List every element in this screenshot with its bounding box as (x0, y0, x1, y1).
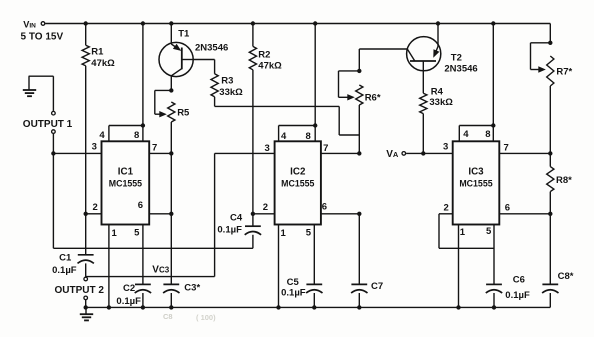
wire top supply rail (45, 23, 550, 25)
wire T2 base to R6 top (359, 48, 407, 50)
svg-text:2: 2 (263, 202, 268, 213)
wire R3 to R6 wiper link (215, 106, 360, 135)
potentiometer R7* (531, 24, 573, 154)
svg-text:5: 5 (486, 226, 492, 237)
node IC1 pin2 junction (84, 212, 102, 216)
op-amp/timer IC3 MC1555 (453, 141, 500, 224)
ground (OUTPUT 1 return) (23, 90, 36, 96)
svg-text:33kΩ: 33kΩ (219, 87, 243, 98)
resistor R3 33k (193, 60, 243, 107)
svg-text:3: 3 (92, 142, 97, 153)
svg-text:7: 7 (504, 143, 509, 154)
decorative scan ghost text (not labelled component) (163, 312, 216, 322)
svg-text:47kΩ: 47kΩ (258, 61, 282, 72)
svg-text:1: 1 (281, 228, 287, 239)
svg-text:R2: R2 (258, 49, 270, 60)
svg-text:OUTPUT 2: OUTPUT 2 (55, 285, 105, 296)
potentiometer R6* (339, 49, 381, 153)
svg-text:VA: VA (386, 149, 399, 160)
svg-text:4: 4 (99, 130, 105, 141)
wire IC1 pins 4+8 supply bar (109, 21, 145, 141)
svg-text:1: 1 (460, 227, 466, 238)
svg-text:R4: R4 (431, 87, 444, 98)
pin labels IC3 3 7 2 6 1 5 (443, 141, 510, 238)
svg-text:2N3546: 2N3546 (195, 42, 228, 53)
wire IC1 pin6 to C3 column (149, 212, 173, 216)
svg-text:0.1µF: 0.1µF (217, 224, 242, 235)
wire IC2 pin6 to R6 column (321, 212, 362, 216)
svg-text:6: 6 (505, 202, 510, 213)
svg-text:T2: T2 (451, 52, 462, 63)
svg-text:R5: R5 (177, 107, 190, 118)
wire IC3 pins 4+8 supply bar (459, 21, 495, 141)
svg-text:5: 5 (306, 228, 312, 239)
capacitor C2 0.1uF on IC1 pin5 (116, 225, 151, 310)
svg-text:IC1: IC1 (118, 166, 134, 177)
resistor R2 47k (249, 21, 282, 214)
wire IC3 pin2 wrap to pin5 bar (439, 214, 494, 249)
svg-text:3: 3 (443, 141, 448, 152)
wire OUTPUT1 ground stub (29, 76, 54, 111)
capacitor C5 0.1uF on IC2 pin5 (281, 225, 322, 310)
wire IC3 pin6 to C8 column (499, 212, 552, 216)
potentiometer R5 (155, 88, 190, 153)
wire IC2 pin7 to R6 column (321, 151, 362, 155)
svg-text:2N3546: 2N3546 (444, 64, 477, 75)
svg-text:R8*: R8* (556, 175, 572, 186)
pin labels IC2 4 8 (281, 131, 311, 142)
transistor T1 2N3546 (159, 21, 228, 90)
svg-text:47kΩ: 47kΩ (91, 58, 115, 69)
node OUTPUT 2 terminals (55, 277, 105, 300)
svg-text:C3*: C3* (184, 282, 200, 293)
svg-text:C2: C2 (123, 283, 135, 294)
node OUTPUT 1 terminals (23, 111, 73, 133)
op-amp/timer IC1 MC1555 (102, 141, 150, 224)
svg-text:8: 8 (485, 129, 490, 140)
wire IC2 pin3 column down to line B (215, 153, 275, 276)
wire OUTPUT1 to IC1 pin3 (51, 134, 101, 156)
resistor R4 33k (420, 87, 454, 154)
pin labels IC1 4 8 (99, 130, 139, 141)
capacitor C1 0.1uF (52, 214, 94, 277)
svg-text:T1: T1 (178, 29, 190, 40)
pin labels IC2 3 7 2 6 1 5 (263, 143, 329, 239)
resistor R1 47k (82, 21, 115, 214)
pin labels IC3 4 8 (463, 129, 490, 140)
svg-text:8: 8 (134, 130, 139, 141)
svg-text:C8*: C8* (558, 271, 574, 282)
ground (bottom rail) (80, 307, 93, 320)
wire bottom ground rail (86, 306, 551, 308)
svg-text:R1: R1 (91, 47, 104, 58)
wire IC3 pin7 to R8 column (499, 151, 552, 155)
svg-text:C1: C1 (59, 253, 72, 264)
node VC3 label (152, 264, 169, 275)
svg-text:MC1555: MC1555 (109, 179, 142, 189)
capacitor C3* (163, 214, 200, 310)
svg-text:7: 7 (323, 143, 328, 154)
node VIN input terminal (21, 20, 64, 43)
wire IC2 pins 4+8 supply bar (279, 21, 318, 141)
op-amp/timer IC2 MC1555 (275, 141, 321, 224)
svg-text:6: 6 (138, 200, 143, 211)
svg-text:0.1µF: 0.1µF (281, 288, 306, 299)
svg-text:5: 5 (134, 228, 140, 239)
wire OUTPUT2 to bottom rail (84, 299, 88, 309)
wire IC1 pin1 to ground rail (107, 225, 111, 310)
capacitor C4 0.1uF (217, 212, 261, 249)
svg-text:MC1555: MC1555 (459, 179, 492, 189)
svg-text:4: 4 (463, 129, 469, 140)
svg-text:3: 3 (265, 143, 270, 154)
svg-text:5 TO 15V: 5 TO 15V (21, 32, 64, 43)
svg-text:6: 6 (322, 202, 327, 213)
transistor T2 2N3546 (407, 21, 478, 93)
capacitor C8* (542, 214, 574, 308)
svg-text:2: 2 (444, 202, 449, 213)
svg-text:( 100): ( 100) (196, 313, 216, 322)
svg-text:MC1555: MC1555 (281, 179, 314, 189)
wire line A: IC1 output to C4 (53, 153, 253, 248)
svg-text:IC2: IC2 (290, 166, 306, 177)
wire VA to IC3 pin3 (406, 151, 453, 155)
svg-text:IC3: IC3 (468, 166, 484, 177)
wire IC3 pin1 to ground rail (456, 225, 460, 310)
wire line B: OUTPUT2 to IC2 pin3 (86, 276, 215, 278)
svg-text:4: 4 (281, 131, 287, 142)
pin labels IC1 3 7 2 6 1 5 (92, 142, 158, 239)
svg-text:7: 7 (152, 143, 157, 154)
wire IC2 pin2 (253, 213, 275, 215)
svg-text:R3: R3 (221, 75, 233, 86)
svg-text:0.1µF: 0.1µF (116, 296, 141, 307)
wire IC1 pin7 to R5 column (149, 151, 173, 155)
svg-text:C7: C7 (371, 281, 383, 292)
svg-text:C8: C8 (163, 312, 173, 321)
svg-text:0.1µF: 0.1µF (52, 265, 77, 276)
resistor R8* (547, 153, 572, 213)
svg-text:OUTPUT 1: OUTPUT 1 (23, 119, 73, 130)
svg-text:C4: C4 (230, 213, 243, 224)
svg-text:R6*: R6* (365, 92, 381, 103)
node VA terminal (386, 149, 405, 160)
svg-text:0.1µF: 0.1µF (505, 290, 530, 301)
svg-text:C6: C6 (513, 274, 525, 285)
svg-text:C5: C5 (287, 277, 300, 288)
wire R5/C3 column pin7 to pin6 (170, 153, 172, 213)
svg-text:8: 8 (306, 131, 311, 142)
svg-text:33kΩ: 33kΩ (429, 97, 453, 108)
svg-text:2: 2 (93, 202, 98, 213)
svg-text:R7*: R7* (556, 66, 572, 77)
svg-text:VC3: VC3 (152, 264, 169, 275)
svg-text:1: 1 (112, 228, 118, 239)
wire IC2 pin1 to ground rail (276, 225, 280, 310)
capacitor C7 (351, 214, 383, 310)
capacitor C6 0.1uF on IC3 pin5 (486, 225, 530, 310)
